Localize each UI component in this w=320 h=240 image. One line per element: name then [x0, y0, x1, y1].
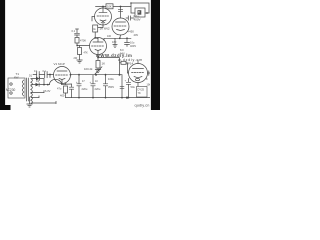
wire V2a plate lead [102, 7, 104, 13]
capacitor C6 coupling [126, 17, 128, 19]
wire top rail B+ [96, 6, 132, 8]
node top-rail junction [102, 6, 104, 8]
wire choke out [62, 83, 72, 85]
svg-text:10K: 10K [107, 5, 112, 9]
node speaker junction [146, 12, 148, 14]
ground Rg [77, 59, 83, 61]
svg-text:8.0: 8.0 [120, 48, 124, 52]
resistor grid stopper V4 [120, 62, 122, 64]
svg-text:100u: 100u [108, 77, 114, 81]
capacitor C9 [105, 75, 107, 84]
wire cathode line to right [98, 57, 119, 59]
wire V2a cathode lead [102, 21, 104, 25]
resistor Rk V1 cathode [64, 86, 68, 93]
input jack / capacitor C1 [33, 74, 37, 76]
svg-text:100.2k: 100.2k [84, 67, 93, 71]
black right bar [151, 0, 160, 110]
capacitor C4 input chain [76, 30, 78, 34]
transformer T1 secondary winding [31, 79, 33, 104]
wire V1 cathode lead [61, 80, 63, 85]
transformer T1 primary winding [22, 80, 23, 96]
wire gnd rail [66, 97, 151, 99]
ground T1 [27, 103, 33, 105]
wire heater lower [31, 102, 56, 104]
node R2 bottom [94, 37, 96, 39]
svg-text:10u: 10u [130, 40, 135, 44]
tube V4 output [129, 64, 148, 83]
wire speaker right lead [145, 12, 149, 14]
svg-text:qudiy.cn: qudiy.cn [135, 103, 150, 107]
resistor R2 [93, 25, 98, 32]
svg-text:1K 6N2: 1K 6N2 [100, 27, 110, 31]
wire drop x122 [121, 75, 123, 98]
wire V4 right lead [148, 72, 152, 74]
wire secondary tap2 [31, 84, 36, 86]
svg-text:100: 100 [107, 35, 112, 38]
resistor Rg grid leak [76, 45, 78, 47]
svg-text:6P14: 6P14 [127, 62, 134, 66]
wire OPT top link [131, 3, 149, 13]
svg-text:160: 160 [112, 40, 117, 44]
svg-text:40V: 40V [134, 33, 139, 37]
svg-text:47K: 47K [84, 52, 89, 55]
svg-text:1K: 1K [102, 62, 106, 66]
svg-text:400V: 400V [134, 18, 141, 22]
wire heater 6.3a [31, 92, 44, 94]
transformer T1 core [26, 78, 28, 101]
black bottom-left nub [0, 105, 11, 110]
svg-text:V1 6J1P: V1 6J1P [54, 62, 65, 66]
svg-text:220u: 220u [82, 87, 88, 91]
wire mid rail [104, 37, 131, 39]
svg-text:AC230: AC230 [6, 88, 16, 92]
wire main mid rail [71, 74, 123, 76]
wire center tap gnd [29, 97, 31, 104]
svg-text:DY25: DY25 [138, 88, 145, 92]
svg-text:7K: 7K [138, 91, 141, 95]
fringe right [150, 0, 151, 110]
node mid rail j2 [126, 37, 128, 39]
speaker box SP [135, 8, 145, 17]
wire V2b grid wire [77, 45, 90, 47]
black left bar [0, 0, 5, 110]
node mid rail j1 [119, 37, 121, 39]
capacitor C3 [78, 75, 80, 84]
tube V2a triode [95, 8, 112, 25]
node OPT link [130, 2, 132, 4]
tube V1 triode [54, 67, 71, 84]
resistor R5 [97, 58, 99, 61]
wire V2b cathode lead [97, 51, 99, 58]
svg-text:6W: 6W [14, 76, 19, 80]
transformer T1 primary box [8, 78, 25, 98]
diode D2 [36, 83, 40, 87]
resistor R4 [75, 38, 79, 44]
wire R2 bottom [95, 32, 98, 39]
wire OPT left lead [131, 3, 135, 13]
svg-text:470K: 470K [80, 39, 86, 43]
svg-text:220u: 220u [95, 87, 101, 91]
capacitor C5 [92, 75, 94, 84]
labels [6, 5, 152, 98]
capacitor C8 electrolytic lower [126, 38, 128, 42]
wire V2b plate lead [97, 38, 99, 42]
svg-text:+450: +450 [128, 30, 135, 34]
wire V3 cathode lead [119, 35, 122, 38]
capacitor Ck [71, 84, 73, 87]
svg-text:350V: 350V [108, 85, 114, 89]
capacitor C3 input [44, 72, 46, 78]
wire V4 plate lead [137, 60, 139, 64]
ground mid [114, 38, 116, 44]
wire diode junction [43, 79, 45, 85]
inductor L1 choke [50, 79, 62, 84]
svg-text:50u: 50u [131, 85, 136, 89]
svg-text:0.1: 0.1 [72, 29, 76, 33]
svg-text:400: 400 [60, 94, 65, 98]
wire V4 bottom lead [137, 83, 139, 87]
node input junction [49, 74, 51, 76]
tube V3 pentode [112, 18, 129, 35]
ground R5 [97, 68, 99, 70]
fringe left [5, 0, 6, 110]
wire secondary tap1 [31, 78, 36, 80]
svg-text:6.3V: 6.3V [45, 89, 51, 93]
wire R2 top link [98, 25, 103, 28]
wire V4 grid stub [128, 72, 129, 74]
resistor R7 [106, 4, 113, 9]
node choke out [65, 83, 67, 85]
svg-text:w.dzdiy.cm: w.dzdiy.cm [118, 58, 143, 62]
wire V2a grid stub [92, 17, 95, 22]
svg-text:47u: 47u [57, 87, 62, 91]
resistor R3 wiper arrow [95, 67, 102, 74]
capacitor C10 [128, 79, 130, 83]
node cathode junction [97, 57, 99, 59]
wire heater 6.3b [31, 97, 39, 99]
diode D1 [36, 77, 40, 81]
svg-text:400V: 400V [130, 44, 136, 48]
box output transformer [137, 87, 148, 98]
wire V3 plate lead [120, 7, 122, 19]
tube V2b triode [90, 38, 107, 55]
